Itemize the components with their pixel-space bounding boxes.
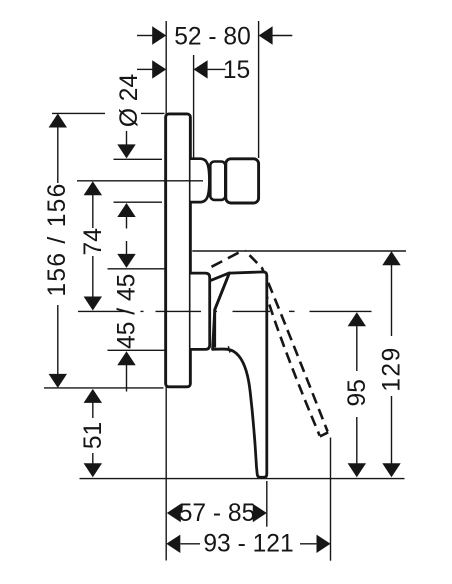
dimension 156/156: [44, 114, 71, 388]
wire 15 extension line: [193, 55, 195, 158]
svg-text:Ø 24: Ø 24: [116, 74, 143, 127]
wire spout bottom tick: [114, 201, 163, 203]
handle neck top edge: [211, 273, 229, 280]
wire 93-121 right extension line: [330, 438, 332, 561]
svg-text:74: 74: [80, 228, 107, 255]
wire plate bottom tick: [44, 387, 164, 389]
spout cone at plate: [191, 159, 210, 202]
dimension 45/45: [114, 241, 141, 392]
dimension 95: [344, 312, 371, 477]
wire plate top tick: [52, 112, 105, 114]
wire 45/45 top tick: [108, 268, 165, 270]
handle rear edge line: [215, 273, 230, 347]
dimension 15: [137, 57, 250, 84]
svg-text:93 - 121: 93 - 121: [203, 531, 293, 558]
dimension diameter 24: [116, 74, 143, 229]
dimension 74: [80, 181, 107, 310]
dimension 51: [80, 389, 107, 477]
dimension 52-80: [137, 23, 292, 50]
wire wall extension line: [165, 21, 167, 561]
dimension 57-85: [167, 500, 267, 527]
dimension 129: [379, 251, 406, 477]
dimension 93-121: [166, 531, 330, 558]
svg-text:95: 95: [344, 379, 371, 406]
parting tick on lever underside: [228, 346, 230, 352]
wire 45/45 bottom tick: [108, 349, 165, 351]
lever open position dashed outline: [212, 251, 329, 437]
wire open-lever top reference line: [192, 250, 406, 252]
wire spout top tick: [114, 158, 163, 160]
handle sleeve: [191, 273, 210, 349]
wire bottom reference line: [80, 478, 405, 480]
svg-text:15: 15: [223, 57, 250, 84]
svg-text:156 / 156: 156 / 156: [44, 182, 71, 296]
lever handle closed position: [213, 272, 267, 477]
svg-text:51: 51: [80, 422, 107, 449]
svg-text:52 - 80: 52 - 80: [174, 23, 251, 50]
wire 52-80 right extension line: [258, 21, 260, 158]
wire 57-85 right extension line: [266, 481, 268, 527]
spout middle piece: [210, 162, 225, 200]
handle centerline: [78, 310, 372, 312]
spout centerline: [77, 180, 203, 182]
wall plate: [166, 114, 191, 387]
spout end piece: [226, 159, 259, 203]
svg-text:129: 129: [379, 346, 406, 392]
svg-text:57 - 85: 57 - 85: [179, 500, 256, 527]
